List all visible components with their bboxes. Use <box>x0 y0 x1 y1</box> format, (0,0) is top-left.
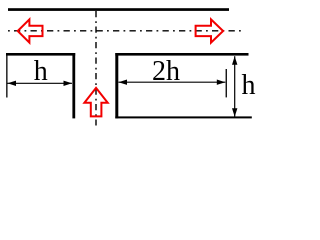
vertical centerline <box>95 11 97 126</box>
dimension h (left) arrowhead left <box>8 81 17 86</box>
dimension h (right) vertical line <box>234 56 236 117</box>
left plate right edge <box>72 53 75 118</box>
2h extension line <box>226 69 227 97</box>
dimension h (right) arrowhead up <box>232 56 237 64</box>
dimension h (left) line <box>8 82 73 84</box>
dimension 2h arrowhead left <box>119 80 128 85</box>
flow arrow left <box>18 19 43 42</box>
svg-text:2h: 2h <box>152 56 180 87</box>
top wall <box>8 8 229 11</box>
right plate top edge <box>115 53 248 56</box>
right plate left edge <box>115 53 118 118</box>
flow arrow right <box>196 19 224 42</box>
svg-text:h: h <box>242 70 256 101</box>
right plate bottom edge <box>115 116 252 118</box>
horizontal centerline <box>8 30 241 32</box>
left dimension extension line <box>6 53 7 98</box>
dimension 2h line <box>119 81 226 83</box>
svg-text:h: h <box>34 56 48 87</box>
dimension h (right) arrowhead down <box>232 108 237 117</box>
dimension 2h arrowhead right <box>217 80 226 85</box>
dimension h (left) arrowhead right <box>64 81 73 86</box>
left plate top edge <box>6 53 75 56</box>
flow arrow up (inlet) <box>84 88 107 117</box>
